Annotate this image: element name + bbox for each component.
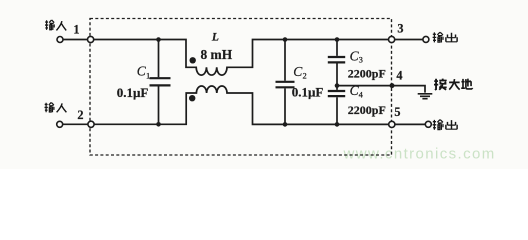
svg-text:www.cntronics.com: www.cntronics.com xyxy=(343,146,496,163)
svg-text:0.1μF: 0.1μF xyxy=(117,85,149,100)
svg-text:4: 4 xyxy=(396,69,402,83)
svg-text:L: L xyxy=(211,31,219,43)
svg-text:1: 1 xyxy=(73,23,79,37)
svg-text:3: 3 xyxy=(359,55,363,65)
svg-text:5: 5 xyxy=(394,105,400,119)
svg-text:0.1μF: 0.1μF xyxy=(292,85,324,100)
svg-text:2: 2 xyxy=(303,70,307,80)
svg-text:1: 1 xyxy=(146,70,150,80)
svg-text:4: 4 xyxy=(359,90,364,100)
svg-text:2200pF: 2200pF xyxy=(348,103,386,117)
svg-text:8 mH: 8 mH xyxy=(201,47,233,62)
svg-text:2200pF: 2200pF xyxy=(348,67,386,81)
svg-text:2: 2 xyxy=(77,108,83,122)
svg-text:3: 3 xyxy=(397,22,403,36)
